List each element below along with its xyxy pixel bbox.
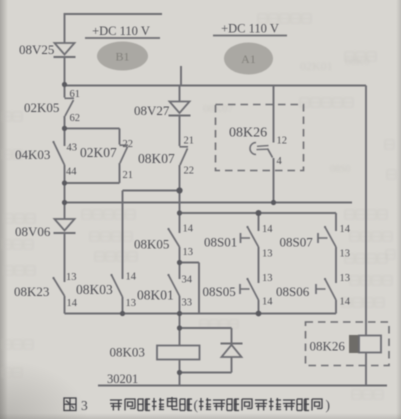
svg-text:3: 3 xyxy=(81,398,88,413)
svg-text:14: 14 xyxy=(67,298,78,309)
svg-text:13: 13 xyxy=(262,249,273,260)
svg-text:A1: A1 xyxy=(241,52,256,66)
svg-text:08K03: 08K03 xyxy=(110,345,145,360)
svg-text:30201: 30201 xyxy=(107,372,138,386)
svg-text:22: 22 xyxy=(123,139,134,150)
svg-text:44: 44 xyxy=(66,167,77,178)
svg-text:): ) xyxy=(326,398,331,413)
svg-text:62: 62 xyxy=(70,113,81,124)
svg-text:08S01: 08S01 xyxy=(204,235,237,250)
svg-text:08S07: 08S07 xyxy=(280,235,314,250)
svg-text:14: 14 xyxy=(340,297,351,308)
svg-text:14: 14 xyxy=(262,297,273,308)
svg-text:08K07: 08K07 xyxy=(138,151,175,166)
svg-text:08K26: 08K26 xyxy=(229,126,267,141)
svg-text:08K01: 08K01 xyxy=(137,288,174,303)
svg-text:14: 14 xyxy=(183,224,194,235)
svg-text:+DC 110 V: +DC 110 V xyxy=(221,22,279,36)
svg-text:14: 14 xyxy=(340,224,351,235)
svg-text:02K07: 02K07 xyxy=(80,145,117,160)
svg-text:33: 33 xyxy=(182,298,193,309)
svg-text:B1: B1 xyxy=(115,50,129,64)
svg-text:61: 61 xyxy=(70,89,81,100)
svg-text:21: 21 xyxy=(123,170,134,181)
svg-text:08S06: 08S06 xyxy=(276,284,310,299)
svg-text:13: 13 xyxy=(262,273,273,284)
svg-text:08V27: 08V27 xyxy=(134,103,170,118)
svg-text:13: 13 xyxy=(340,273,351,284)
svg-text:+DC 110 V: +DC 110 V xyxy=(92,24,150,38)
svg-text:21: 21 xyxy=(184,136,195,147)
svg-text:13: 13 xyxy=(66,272,77,283)
svg-text:(: ( xyxy=(194,398,199,413)
svg-text:4: 4 xyxy=(277,156,283,167)
svg-text:08K03: 08K03 xyxy=(76,282,113,297)
svg-text:08V25: 08V25 xyxy=(19,42,54,57)
svg-text:43: 43 xyxy=(67,143,78,154)
svg-text:08V06: 08V06 xyxy=(15,224,51,239)
svg-text:34: 34 xyxy=(182,275,193,286)
svg-text:14: 14 xyxy=(262,224,273,235)
svg-text:08K23: 08K23 xyxy=(14,284,49,299)
svg-text:08K26: 08K26 xyxy=(310,339,346,354)
svg-text:08S05: 08S05 xyxy=(203,284,236,299)
svg-text:08K05: 08K05 xyxy=(134,237,169,252)
svg-text:04K03: 04K03 xyxy=(15,147,50,162)
svg-text:13: 13 xyxy=(126,298,137,309)
svg-text:12: 12 xyxy=(277,136,288,147)
svg-text:22: 22 xyxy=(184,166,195,177)
svg-text:13: 13 xyxy=(183,247,194,258)
svg-text:02K05: 02K05 xyxy=(24,100,59,115)
svg-text:13: 13 xyxy=(340,249,351,260)
svg-text:14: 14 xyxy=(126,272,137,283)
